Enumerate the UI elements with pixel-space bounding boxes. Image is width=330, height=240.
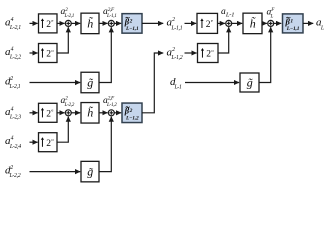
- svg-text:L-2,2: L-2,2: [9, 173, 21, 179]
- node label a^2_L-2,2: [61, 96, 75, 108]
- adder S4 (⊕): [108, 110, 114, 116]
- svg-text:L−1,2: L−1,2: [125, 116, 139, 122]
- svg-text:L-1,2: L-1,2: [170, 55, 182, 61]
- node label a^2,F_L-1,2: [103, 96, 117, 108]
- upsampler ↑2^e (right): [197, 13, 218, 33]
- node label a^2_L-2,1: [61, 7, 75, 19]
- svg-text:e: e: [51, 108, 53, 113]
- wire filter g~ up into adder S6: [259, 27, 271, 82]
- svg-text:2: 2: [172, 47, 175, 53]
- svg-text:F: F: [270, 7, 275, 13]
- node label a^F_L: [267, 7, 276, 19]
- upsampler ↑2^e (top-left row 1): [39, 14, 58, 33]
- filter g~ (top): [81, 72, 99, 93]
- svg-text:L-2,1: L-2,1: [9, 25, 21, 31]
- svg-text:h̃: h̃: [250, 16, 256, 30]
- wire filter h~ to adder S2: [99, 22, 108, 24]
- svg-text:2: 2: [10, 76, 13, 82]
- svg-text:L-2,3: L-2,3: [9, 114, 21, 120]
- wire upsampler to adder S5: [218, 22, 225, 24]
- wire input d^2_L-2,2 to filter g~: [30, 171, 81, 173]
- svg-text:4: 4: [11, 135, 14, 142]
- wire adder S6 to block B3: [274, 22, 282, 24]
- adder S6 (⊕): [268, 20, 274, 26]
- svg-text:e: e: [51, 18, 53, 23]
- wire block B1 output to a^2_L-1,1: [142, 22, 163, 24]
- processing block B1 (β~^2_L-1,1): [122, 14, 142, 34]
- svg-text:L: L: [320, 25, 324, 31]
- svg-text:2: 2: [172, 17, 175, 23]
- node label a_L-1: [221, 7, 234, 19]
- svg-text:1: 1: [290, 19, 293, 25]
- node label a^2_L-1,1: [167, 17, 183, 32]
- wire d_L-1 to filter g~: [185, 82, 239, 84]
- wire adder S2 to block B1: [114, 22, 121, 24]
- node label d_L-1: [170, 76, 182, 91]
- adder S3 (⊕): [65, 110, 71, 116]
- svg-text:h̃: h̃: [87, 16, 93, 30]
- upsampler ↑2^o (bottom-left row 2): [39, 133, 58, 152]
- svg-text:L-2,4: L-2,4: [9, 143, 21, 150]
- processing block B3 (β~^1_L-1): [283, 14, 304, 33]
- filter g~ (bottom): [81, 161, 99, 182]
- upsampler ↑2^o (top-left row 2): [39, 44, 58, 63]
- wire upsampler ↑2^o up into adder S3: [57, 117, 68, 143]
- wire upsampler to adder S3: [57, 112, 65, 114]
- wire input a^4_L-2,2 to upsampler: [30, 52, 38, 54]
- svg-text:L-2,1: L-2,1: [9, 84, 21, 90]
- svg-text:L-1,2: L-1,2: [106, 102, 117, 108]
- node label a^4_L-2,4 (input): [5, 135, 21, 150]
- wire filter g~ up into adder S2: [99, 27, 111, 82]
- svg-text:L-2,2: L-2,2: [9, 55, 21, 61]
- node label a^2,F_L-1,1: [103, 7, 117, 19]
- wire filter g~ up into adder S4: [99, 117, 111, 172]
- svg-text:4: 4: [11, 46, 14, 53]
- svg-text:2,F: 2,F: [108, 7, 115, 13]
- node label a^4_L-2,2 (input): [5, 46, 21, 61]
- wire filter h~ to adder S6: [262, 22, 267, 24]
- svg-text:2: 2: [129, 19, 133, 25]
- svg-text:e: e: [211, 18, 213, 23]
- svg-text:2: 2: [10, 165, 13, 171]
- wire input a^4_L-2,4 to upsampler: [30, 141, 38, 143]
- wire input a^4_L-2,3 to upsampler: [30, 112, 38, 114]
- wire upsampler ↑2^o up into adder S5: [218, 27, 229, 53]
- filter h~ (top): [81, 13, 99, 34]
- wire a^2_L-1,1 to upsampler: [185, 22, 197, 24]
- svg-text:L-1,1: L-1,1: [170, 25, 182, 31]
- node label a_L (output): [316, 17, 324, 32]
- wire block B2 output up to a^2_L-1,2: [142, 53, 163, 113]
- adder S5 (⊕): [226, 20, 232, 26]
- svg-text:g̃: g̃: [87, 165, 93, 179]
- wire input a^4_L-2,1 to upsampler: [30, 22, 38, 24]
- svg-text:2,F: 2,F: [108, 96, 115, 102]
- svg-text:2: 2: [65, 96, 68, 102]
- wire a^2_L-1,2 to upsampler: [185, 52, 197, 54]
- wire adder S4 to block B2: [114, 112, 121, 114]
- wire upsampler to adder S1: [57, 22, 65, 24]
- svg-text:L: L: [270, 14, 274, 20]
- svg-text:L-1: L-1: [174, 84, 183, 90]
- processing block B2 (β~^2_L-1,2): [122, 103, 142, 123]
- svg-text:L-2,2: L-2,2: [64, 102, 75, 108]
- filter h~ (bottom): [81, 103, 99, 124]
- node label d^2_L-2,1 (input): [5, 76, 21, 91]
- svg-text:L-1,1: L-1,1: [106, 13, 117, 19]
- svg-text:L-1: L-1: [225, 12, 234, 19]
- adder S1 (⊕): [65, 20, 71, 26]
- svg-text:4: 4: [11, 16, 14, 23]
- wire adder S1 to filter h~: [71, 22, 80, 24]
- node label a^4_L-2,3 (input): [5, 105, 21, 120]
- filter g~ (right): [240, 73, 259, 92]
- svg-text:L−1,1: L−1,1: [125, 26, 139, 32]
- node label a^2_L-1,2: [167, 46, 183, 61]
- svg-text:2: 2: [129, 108, 133, 114]
- wire input d^2_L-2,1 to filter g~: [30, 82, 81, 84]
- upsampler ↑2^o (right): [198, 44, 219, 63]
- filter h~ (right): [243, 13, 262, 34]
- svg-text:4: 4: [11, 105, 14, 112]
- wire block B3 to output a_L: [303, 22, 313, 24]
- svg-text:L-2,1: L-2,1: [64, 13, 75, 19]
- wire upsampler ↑2^o up into adder S1: [57, 27, 68, 53]
- svg-text:g̃: g̃: [247, 75, 253, 89]
- node label a^4_L-2,1 (input): [5, 16, 21, 31]
- wire adder S3 to filter h~: [71, 112, 80, 114]
- svg-text:g̃: g̃: [87, 75, 93, 89]
- wire filter h~ to adder S4: [99, 112, 108, 114]
- svg-text:L−1,1: L−1,1: [286, 26, 300, 32]
- wire adder S5 to filter h~: [232, 22, 243, 24]
- svg-text:2: 2: [65, 7, 68, 13]
- svg-text:h̃: h̃: [87, 105, 93, 119]
- upsampler ↑2^e (bottom-left row 1): [39, 103, 58, 122]
- adder S2 (⊕): [108, 20, 114, 26]
- node label d^2_L-2,2 (input): [5, 165, 21, 180]
